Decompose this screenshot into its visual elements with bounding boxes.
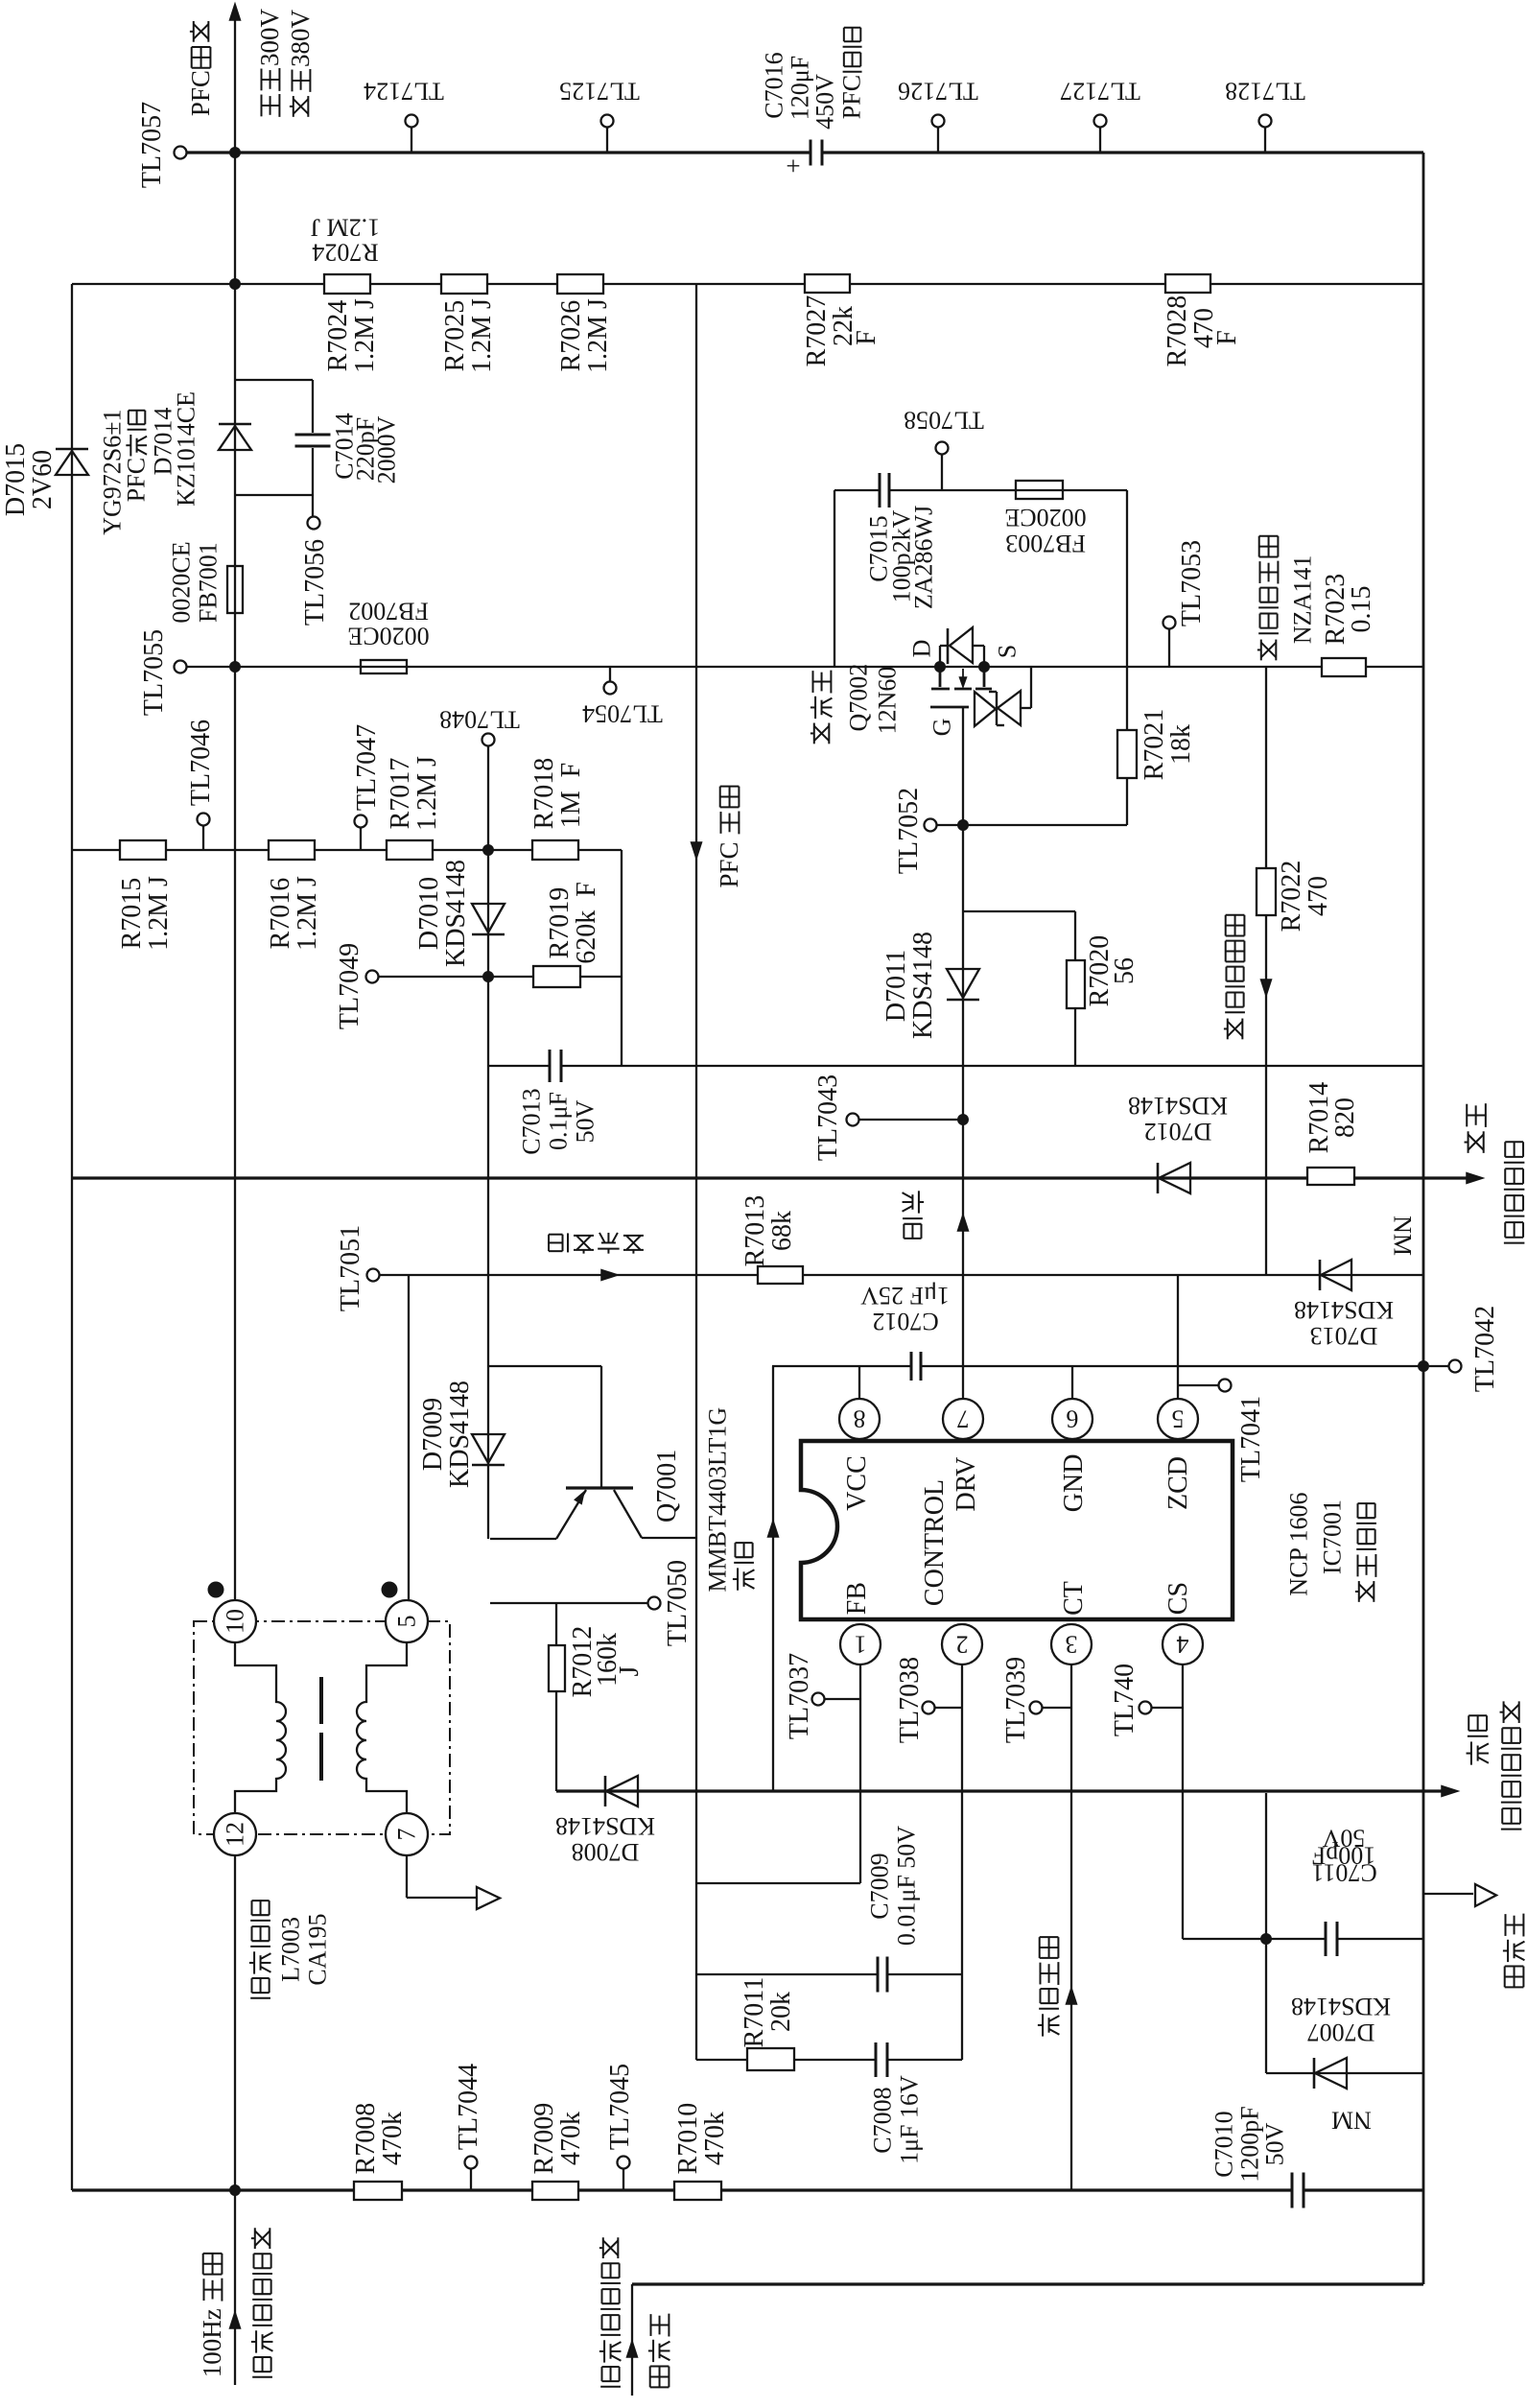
- svg-text:450V: 450V: [811, 74, 839, 130]
- svg-text:C7010: C7010: [1210, 2111, 1238, 2177]
- svg-text:D7010: D7010: [414, 877, 444, 950]
- svg-text:300V: 300V: [255, 9, 284, 67]
- svg-text:TL7054: TL7054: [582, 699, 663, 727]
- svg-text:TL7125: TL7125: [559, 77, 640, 105]
- svg-text:TL7057: TL7057: [137, 102, 167, 188]
- svg-text:0.01μF 50V: 0.01μF 50V: [893, 1826, 921, 1946]
- svg-text:F: F: [852, 330, 881, 345]
- svg-text:R7024: R7024: [323, 300, 353, 372]
- svg-text:CA195: CA195: [304, 1913, 332, 1985]
- svg-text:PFC: PFC: [838, 75, 866, 119]
- svg-text:18k: 18k: [1166, 724, 1196, 765]
- svg-text:8: 8: [854, 1405, 866, 1432]
- svg-text:MMBT4403LT1G: MMBT4403LT1G: [704, 1407, 732, 1593]
- svg-text:TL7039: TL7039: [1001, 1657, 1031, 1743]
- svg-text:50V: 50V: [1261, 2122, 1289, 2165]
- svg-text:ZCD: ZCD: [1163, 1456, 1193, 1510]
- svg-text:0.15: 0.15: [1347, 586, 1376, 633]
- svg-text:2: 2: [956, 1630, 969, 1658]
- svg-text:CS: CS: [1163, 1582, 1193, 1615]
- svg-text:TL7056: TL7056: [300, 539, 330, 626]
- svg-text:R7028: R7028: [1163, 295, 1192, 367]
- svg-text:R7017: R7017: [386, 758, 415, 830]
- svg-text:NM: NM: [1331, 2106, 1372, 2134]
- svg-text:2000V: 2000V: [373, 415, 401, 484]
- svg-text:GND: GND: [1059, 1454, 1089, 1513]
- svg-text:1200pF: 1200pF: [1236, 2106, 1264, 2182]
- svg-text:470: 470: [1304, 876, 1333, 916]
- svg-text:TL7058: TL7058: [904, 406, 984, 434]
- svg-text:5: 5: [393, 1616, 421, 1628]
- svg-text:20k: 20k: [766, 1992, 796, 2032]
- svg-text:7: 7: [393, 1829, 421, 1841]
- svg-text:D7011: D7011: [881, 950, 911, 1022]
- svg-text:TL7049: TL7049: [335, 943, 364, 1029]
- svg-text:ZA286WJ: ZA286WJ: [910, 506, 938, 609]
- svg-text:TL7050: TL7050: [663, 1560, 693, 1646]
- svg-text:1.2M J: 1.2M J: [144, 876, 174, 951]
- svg-text:C7013: C7013: [518, 1088, 546, 1154]
- svg-text:R7008: R7008: [351, 2103, 381, 2175]
- svg-text:NCP 1606: NCP 1606: [1285, 1492, 1313, 1595]
- svg-text:C7008: C7008: [869, 2087, 897, 2153]
- svg-text:NZA141: NZA141: [1289, 555, 1317, 644]
- svg-text:KDS4148: KDS4148: [1294, 1296, 1394, 1324]
- svg-text:50V: 50V: [1322, 1824, 1365, 1852]
- svg-text:KZ1014CE: KZ1014CE: [173, 391, 200, 507]
- svg-text:120μF: 120μF: [787, 56, 814, 120]
- svg-text:D: D: [908, 640, 936, 658]
- svg-text:R7010: R7010: [673, 2103, 703, 2175]
- svg-text:0020CE: 0020CE: [1004, 504, 1086, 531]
- svg-text:TL7053: TL7053: [1177, 540, 1207, 626]
- svg-text:1.2M J: 1.2M J: [583, 298, 613, 373]
- svg-text:FB7001: FB7001: [195, 542, 223, 623]
- svg-text:FB7003: FB7003: [1005, 530, 1086, 557]
- svg-text:10: 10: [222, 1609, 249, 1634]
- svg-text:C7009: C7009: [866, 1853, 894, 1919]
- svg-text:R7016: R7016: [266, 878, 295, 950]
- svg-text:TL7048: TL7048: [439, 705, 520, 733]
- svg-text:1.2M J: 1.2M J: [467, 298, 497, 373]
- svg-text:2V60: 2V60: [28, 450, 58, 509]
- svg-text:7: 7: [957, 1405, 970, 1432]
- svg-text:+: +: [786, 152, 800, 180]
- svg-text:S: S: [994, 645, 1022, 658]
- svg-text:0.1μF: 0.1μF: [545, 1092, 573, 1150]
- svg-text:KDS4148: KDS4148: [908, 932, 938, 1039]
- svg-text:FB: FB: [842, 1582, 872, 1615]
- svg-text:R7013: R7013: [740, 1195, 770, 1267]
- svg-text:D7015: D7015: [1, 443, 31, 516]
- svg-text:D7008: D7008: [572, 1838, 640, 1866]
- svg-text:4: 4: [1177, 1630, 1189, 1658]
- svg-text:TL7043: TL7043: [813, 1074, 843, 1161]
- svg-text:KDS4148: KDS4148: [445, 1381, 475, 1488]
- svg-text:470k: 470k: [556, 2112, 586, 2165]
- svg-text:12: 12: [222, 1822, 249, 1847]
- svg-text:IC7001: IC7001: [1319, 1499, 1347, 1574]
- svg-text:KDS4148: KDS4148: [555, 1812, 655, 1840]
- svg-text:380V: 380V: [286, 10, 315, 68]
- svg-text:TL740: TL740: [1110, 1664, 1139, 1736]
- svg-text:G: G: [928, 719, 956, 737]
- svg-text:D7009: D7009: [418, 1398, 448, 1471]
- svg-text:Q7002: Q7002: [845, 664, 873, 732]
- svg-text:C7016: C7016: [761, 52, 788, 118]
- svg-text:CT: CT: [1059, 1581, 1089, 1616]
- svg-text:PFC: PFC: [186, 70, 215, 116]
- svg-text:KDS4148: KDS4148: [441, 860, 471, 967]
- svg-text:1.2M J: 1.2M J: [412, 756, 442, 831]
- svg-text:R7019: R7019: [545, 887, 575, 959]
- svg-text:1M F: 1M F: [556, 763, 586, 828]
- svg-text:470k: 470k: [378, 2112, 408, 2165]
- svg-text:TL7041: TL7041: [1236, 1396, 1266, 1482]
- svg-text:1.2M J: 1.2M J: [293, 876, 322, 951]
- svg-text:R7022: R7022: [1277, 861, 1306, 933]
- svg-text:DRV: DRV: [951, 1457, 981, 1512]
- svg-text:1μF 16V: 1μF 16V: [896, 2075, 924, 2164]
- svg-text:100Hz: 100Hz: [198, 2302, 226, 2377]
- svg-text:TL7127: TL7127: [1060, 77, 1140, 105]
- svg-text:1μF 25V: 1μF 25V: [860, 1282, 950, 1310]
- svg-text:0020CE: 0020CE: [347, 622, 429, 649]
- svg-text:0020CE: 0020CE: [168, 541, 196, 623]
- svg-text:D7012: D7012: [1144, 1118, 1212, 1145]
- svg-text:L7003: L7003: [277, 1917, 305, 1982]
- svg-text:5: 5: [1172, 1405, 1185, 1432]
- svg-text:TL7051: TL7051: [336, 1225, 365, 1311]
- svg-text:1.2M J: 1.2M J: [350, 298, 380, 373]
- svg-text:VCC: VCC: [842, 1455, 872, 1511]
- svg-text:R7027: R7027: [802, 295, 832, 367]
- svg-text:KDS4148: KDS4148: [1291, 1993, 1391, 2020]
- svg-text:KDS4148: KDS4148: [1128, 1092, 1228, 1120]
- svg-text:CONTROL: CONTROL: [920, 1479, 950, 1606]
- svg-text:TL7052: TL7052: [894, 788, 924, 874]
- svg-text:TL7037: TL7037: [785, 1653, 814, 1739]
- svg-text:820: 820: [1330, 1098, 1360, 1138]
- svg-text:NM: NM: [1388, 1216, 1416, 1256]
- svg-text:R7018: R7018: [529, 758, 559, 830]
- svg-text:1.2M J: 1.2M J: [311, 213, 380, 241]
- svg-text:470k: 470k: [700, 2112, 730, 2165]
- svg-text:6: 6: [1067, 1405, 1079, 1432]
- svg-text:D7007: D7007: [1307, 2018, 1375, 2046]
- svg-text:TL7042: TL7042: [1470, 1306, 1500, 1392]
- svg-text:F: F: [1212, 330, 1242, 345]
- svg-text:50V: 50V: [572, 1099, 599, 1143]
- svg-text:TL7038: TL7038: [895, 1657, 925, 1743]
- svg-text:TL7126: TL7126: [898, 77, 978, 105]
- svg-text:R7021: R7021: [1139, 709, 1169, 781]
- svg-text:3: 3: [1066, 1630, 1078, 1658]
- svg-text:68k: 68k: [767, 1211, 797, 1251]
- svg-text:FB7002: FB7002: [348, 597, 429, 625]
- svg-text:TL7128: TL7128: [1225, 77, 1305, 105]
- svg-text:R7009: R7009: [529, 2103, 559, 2175]
- svg-text:R7015: R7015: [117, 878, 147, 950]
- svg-text:TL7045: TL7045: [605, 2064, 635, 2150]
- svg-text:D7013: D7013: [1310, 1322, 1378, 1350]
- svg-text:C7012: C7012: [872, 1308, 938, 1335]
- svg-text:R7026: R7026: [556, 300, 586, 372]
- svg-text:620k F: 620k F: [572, 882, 601, 964]
- svg-text:TL7046: TL7046: [186, 720, 216, 806]
- svg-text:TL7044: TL7044: [454, 2064, 483, 2150]
- svg-text:Q7001: Q7001: [652, 1450, 682, 1523]
- svg-text:56: 56: [1110, 957, 1139, 984]
- svg-text:PFC: PFC: [123, 458, 151, 502]
- svg-text:12N60: 12N60: [874, 667, 902, 735]
- svg-text:TL7055: TL7055: [139, 629, 169, 716]
- svg-text:R7025: R7025: [440, 300, 470, 372]
- svg-text:TL7047: TL7047: [352, 724, 382, 811]
- svg-text:R7011: R7011: [740, 1977, 769, 2048]
- svg-text:160k: 160k: [593, 1633, 623, 1687]
- svg-text:PFC: PFC: [715, 836, 743, 888]
- svg-text:1: 1: [855, 1630, 867, 1658]
- svg-text:J: J: [615, 1666, 645, 1677]
- svg-text:TL7124: TL7124: [364, 77, 444, 105]
- svg-text:R7024: R7024: [312, 238, 378, 266]
